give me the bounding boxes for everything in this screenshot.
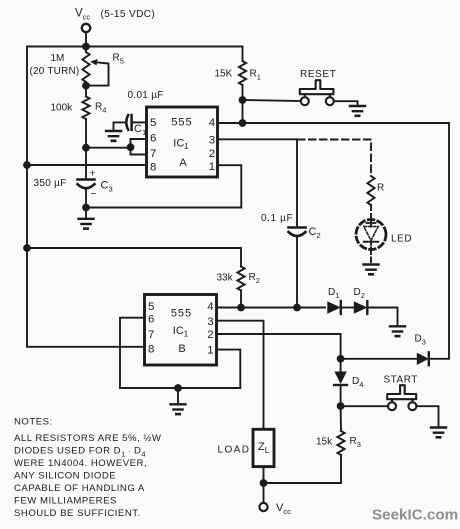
- svg-text:NOTES:: NOTES:: [14, 417, 53, 428]
- node R5/R4 junction: [82, 82, 90, 90]
- svg-text:555: 555: [171, 308, 192, 320]
- wire load bottom to Vcc terminal: [263, 467, 265, 504]
- wire node to D3: [341, 358, 417, 360]
- svg-text:1: 1: [209, 161, 215, 173]
- terminal Vcc bottom: [259, 503, 267, 511]
- svg-text:ANY SILICON DIODE: ANY SILICON DIODE: [14, 471, 116, 482]
- LED diode symbol: [370, 220, 372, 227]
- wire IC1B pin 1 to ground rail: [120, 350, 240, 388]
- LED indicator dashed circle: [356, 220, 386, 250]
- svg-text:−: −: [91, 188, 97, 200]
- svg-text:+: +: [90, 168, 96, 180]
- wire dashed R to LED: [370, 205, 372, 220]
- capacitor C1 0.01uF plates: [130, 115, 133, 130]
- wiper arrow of R5: [90, 59, 97, 65]
- node left rail / pin 8 wire: [23, 161, 31, 169]
- svg-text:1: 1: [207, 345, 213, 357]
- resistor R (LED series) body: [367, 176, 374, 205]
- node load bottom junction: [260, 479, 268, 487]
- diode D1: [327, 301, 341, 313]
- svg-text:SeekIC.com: SeekIC.com: [372, 507, 458, 524]
- ground at D2: [390, 325, 405, 327]
- svg-text:555: 555: [171, 117, 192, 129]
- wire IC1A pin 4 to node: [218, 122, 243, 124]
- wire IC1A pin 3 to C2 top: [218, 139, 298, 226]
- wire D1 to D2: [341, 307, 354, 309]
- node R2 bottom / pin 4: [237, 304, 245, 312]
- wire left rail to IC1A pin 8: [27, 164, 147, 166]
- svg-text:7: 7: [150, 148, 156, 160]
- svg-text:3: 3: [209, 134, 215, 146]
- svg-text:START: START: [384, 375, 418, 386]
- ground at IC1B pin 1: [171, 403, 186, 405]
- svg-text:LED: LED: [391, 234, 412, 245]
- wire C3 node stub to ground: [85, 208, 87, 219]
- svg-text:WERE 1N4004. HOWEVER,: WERE 1N4004. HOWEVER,: [14, 458, 147, 469]
- svg-text:CAPABLE OF HANDLING A: CAPABLE OF HANDLING A: [14, 483, 145, 494]
- label 555 IC1 B: [171, 308, 192, 356]
- node D3/D4 junction: [337, 355, 345, 363]
- ground at RESET: [350, 105, 365, 107]
- resistor R4 100k body: [82, 97, 89, 120]
- wire R3 bottom to load node: [264, 455, 342, 483]
- wire IC1A pin 5 to C1: [133, 121, 147, 123]
- node left rail / R2 wire: [23, 244, 31, 252]
- capacitor C3 350uF plates: [78, 178, 95, 181]
- wire C2 bottom to D1 rail: [296, 237, 298, 308]
- node C2 bottom junction: [293, 304, 301, 312]
- svg-text:6: 6: [148, 313, 154, 325]
- wire R4 node down to C3: [85, 148, 87, 179]
- ground at C3: [79, 218, 94, 220]
- wire R5 wiper to bottom terminal: [86, 62, 109, 85]
- svg-text:ALL RESISTORS ARE 5%, ½W: ALL RESISTORS ARE 5%, ½W: [14, 433, 162, 444]
- node C3 ground node: [82, 204, 90, 212]
- wire IC1B pin 2 to D3/D4 node: [217, 334, 341, 359]
- resistor R1 15K body: [239, 61, 246, 85]
- svg-text:100k: 100k: [51, 103, 74, 114]
- resistor R2 33k body: [237, 267, 244, 291]
- wire node stub to ground: [177, 388, 179, 404]
- diode D4: [334, 372, 346, 385]
- svg-text:FEW MILLIAMPERES: FEW MILLIAMPERES: [14, 496, 117, 507]
- wire IC1B pin 6 to ground rail: [120, 318, 145, 388]
- node R1 / RESET junction: [239, 96, 247, 104]
- label 555 IC1 A: [171, 117, 192, 170]
- wire pin4 node to right rail down to D3: [243, 123, 450, 359]
- node ground-wire junction: [174, 384, 182, 392]
- svg-text:33k: 33k: [217, 273, 234, 284]
- svg-text:8: 8: [150, 162, 156, 174]
- wire R2 bottom lead: [240, 291, 242, 308]
- capacitor C2 0.1uF plates: [289, 226, 306, 229]
- ground at START: [431, 426, 446, 428]
- svg-text:B: B: [178, 343, 185, 355]
- pin labels IC1B: [148, 301, 214, 356]
- wire Vcc top rail and left rail to IC1B pin 8: [27, 47, 243, 347]
- node D4/START/R3 junction: [337, 402, 345, 410]
- wire D2 to ground: [367, 308, 397, 327]
- wire node to IC1A pins 6 and 7 bracket: [86, 139, 147, 155]
- pushbutton RESET: [300, 80, 334, 94]
- terminal Vcc top: [82, 24, 90, 32]
- node pins 6-7 tie: [127, 143, 135, 151]
- wire node down to R3: [340, 406, 342, 431]
- svg-text:350 µF: 350 µF: [34, 178, 67, 189]
- wire dashed from pin3 node to R: [298, 140, 371, 177]
- svg-text:RESET: RESET: [300, 69, 336, 80]
- svg-text:4: 4: [207, 301, 213, 313]
- pin labels IC1A: [150, 117, 215, 173]
- resistor R3 15k body: [337, 431, 344, 455]
- notes text block: [14, 417, 162, 520]
- svg-text:A: A: [179, 157, 187, 169]
- node R4/C3/pins-6-7 junction: [82, 144, 90, 152]
- svg-text:15k: 15k: [316, 437, 333, 448]
- resistor R5 1M 20-turn potentiometer body: [82, 52, 89, 82]
- wire R1 bottom: [242, 85, 244, 123]
- svg-text:2: 2: [209, 148, 215, 160]
- pushbutton START: [387, 385, 416, 399]
- node R1 / pin4 junction: [239, 119, 247, 127]
- svg-text:6: 6: [150, 133, 156, 145]
- wire left rail to R2 top: [27, 248, 241, 267]
- wire START to ground: [416, 406, 438, 427]
- svg-text:0.1 µF: 0.1 µF: [261, 213, 293, 224]
- svg-text:8: 8: [148, 343, 154, 355]
- wire C1 to ground: [114, 122, 126, 131]
- diode D2: [354, 301, 368, 313]
- ground at LED: [364, 263, 379, 265]
- wire R5 top lead: [85, 47, 87, 53]
- svg-text:R: R: [377, 183, 384, 194]
- wire IC1B pin 3 to load: [217, 321, 264, 430]
- svg-text:5: 5: [150, 117, 156, 129]
- wire C3 node to IC1A pin 1: [86, 165, 241, 207]
- svg-text:(5-15 VDC): (5-15 VDC): [101, 9, 156, 20]
- IC U-IC1A 555 timer box: [147, 107, 218, 177]
- ground at C1: [106, 130, 121, 132]
- node Vcc rail junction: [82, 43, 90, 51]
- svg-text:5: 5: [148, 301, 154, 313]
- wire Vcc terminal stem: [85, 32, 87, 46]
- wire R5 bottom to R4 top: [85, 82, 87, 97]
- wire dashed LED to ground: [370, 250, 372, 265]
- svg-text:2: 2: [207, 329, 213, 341]
- svg-text:3: 3: [207, 316, 213, 328]
- wire IC1B pin 4 to diode rail: [217, 307, 326, 309]
- svg-text:SHOULD BE SUFFICIENT.: SHOULD BE SUFFICIENT.: [14, 508, 141, 519]
- wire node to D4: [340, 359, 342, 372]
- wire R4 bottom to node: [85, 119, 87, 148]
- wire D4 to START node: [340, 385, 342, 406]
- svg-text:7: 7: [148, 329, 154, 341]
- svg-text:(20 TURN): (20 TURN): [30, 66, 80, 77]
- wire rail corner down to R1: [242, 47, 244, 62]
- svg-text:0.01 µF: 0.01 µF: [128, 90, 164, 101]
- svg-text:LOAD: LOAD: [218, 445, 251, 456]
- svg-text:15K: 15K: [215, 69, 233, 80]
- wire node to RESET switch: [243, 100, 302, 101]
- wire node to START switch: [341, 405, 389, 407]
- diode D3: [417, 353, 429, 365]
- wire C3 bottom to ground node: [85, 189, 87, 208]
- load ZL box: [253, 429, 274, 466]
- wire RESET to ground: [334, 101, 358, 106]
- IC U-IC1B 555 timer box: [145, 295, 217, 366]
- svg-text:1M: 1M: [51, 53, 65, 64]
- svg-text:4: 4: [209, 117, 215, 129]
